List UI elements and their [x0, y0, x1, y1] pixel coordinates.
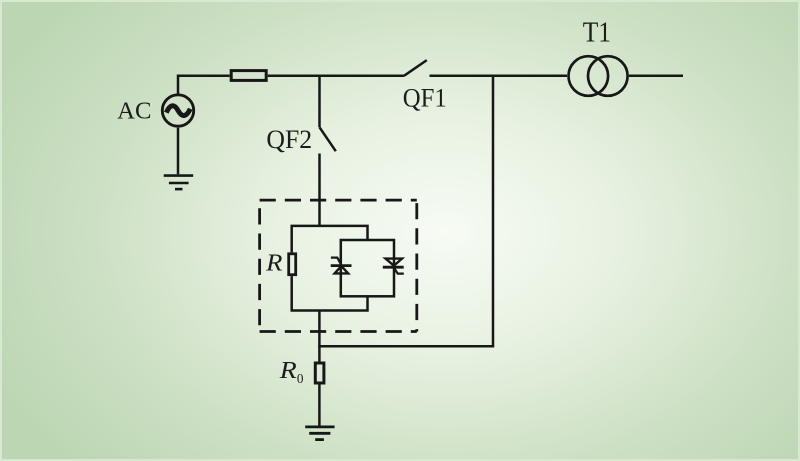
svg-text:T1: T1 — [583, 18, 611, 49]
svg-text:QF1: QF1 — [403, 84, 447, 113]
svg-text:R: R — [279, 357, 297, 384]
svg-text:AC: AC — [117, 98, 151, 125]
svg-text:R: R — [265, 250, 283, 276]
svg-text:QF2: QF2 — [266, 125, 312, 154]
svg-text:0: 0 — [297, 372, 304, 387]
